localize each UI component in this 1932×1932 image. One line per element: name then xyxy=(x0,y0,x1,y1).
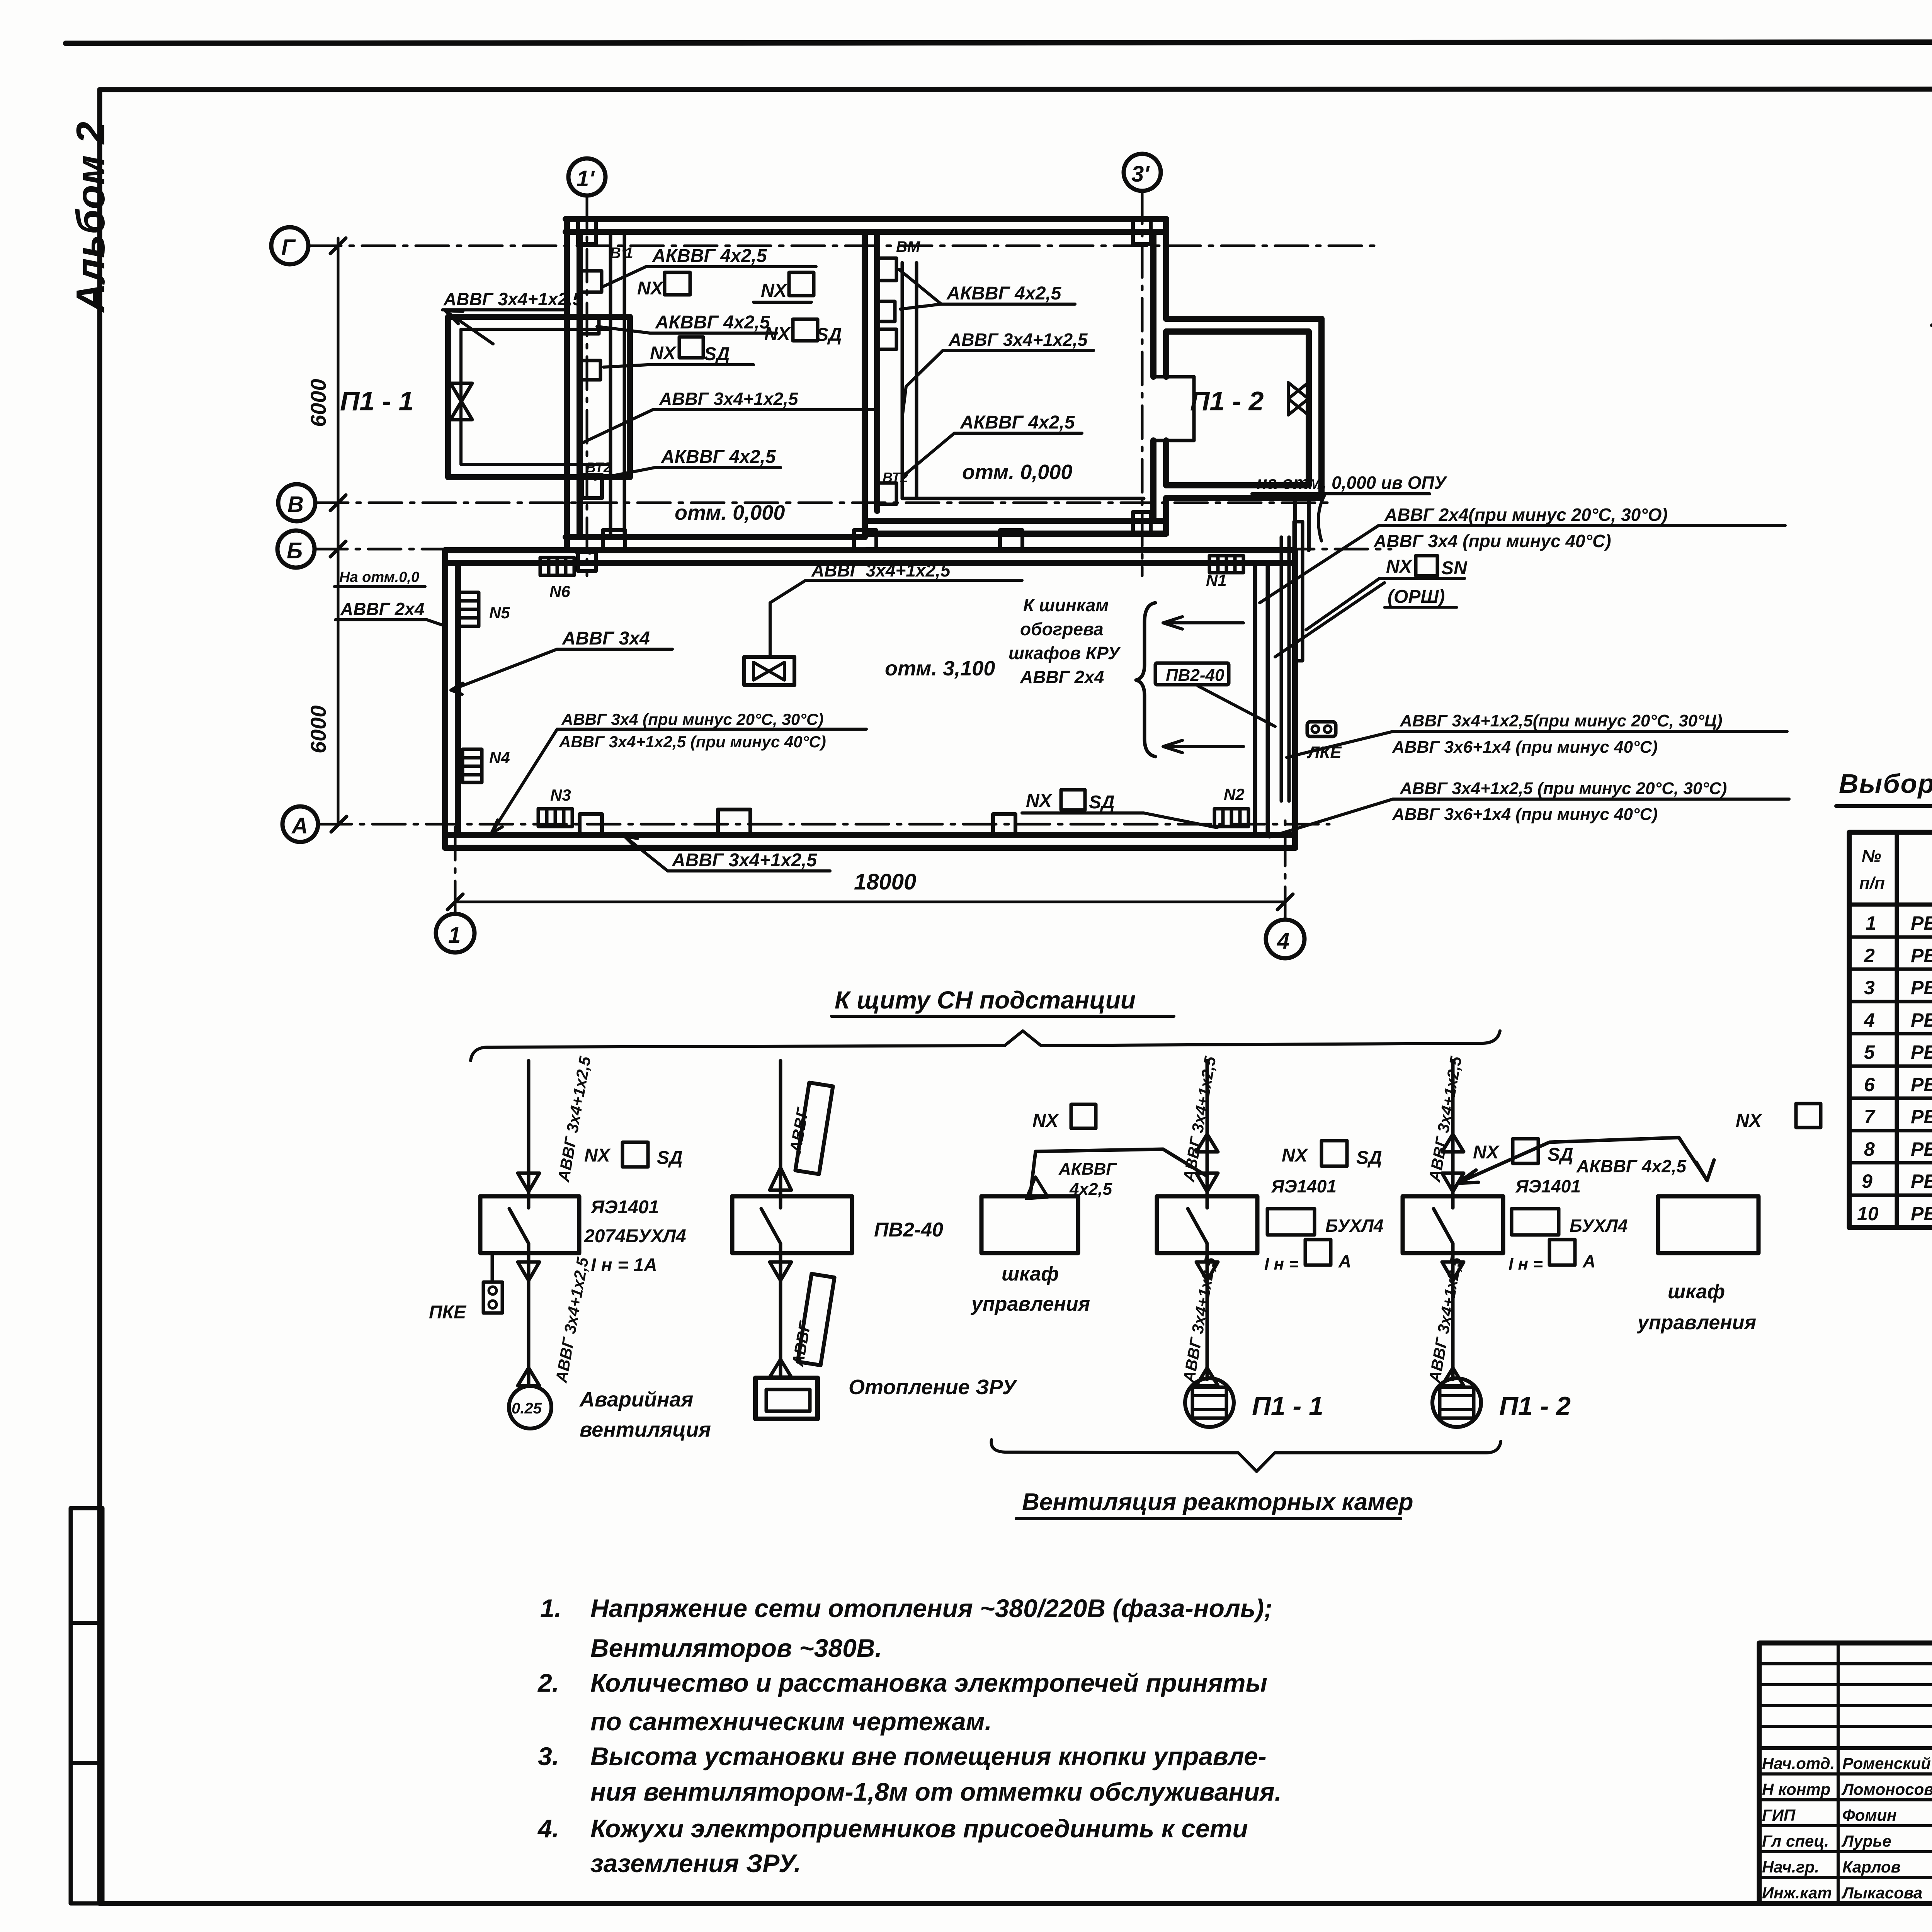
svg-text:SД: SД xyxy=(657,1148,683,1168)
svg-text:N5: N5 xyxy=(489,604,510,622)
svg-text:ЯЭ1401: ЯЭ1401 xyxy=(590,1197,659,1218)
svg-text:отм. 0,000: отм. 0,000 xyxy=(675,501,785,524)
svg-text:7: 7 xyxy=(1864,1106,1876,1128)
svg-text:на отм. 0,000 ив ОПУ: на отм. 0,000 ив ОПУ xyxy=(1257,473,1448,493)
svg-text:10: 10 xyxy=(1857,1203,1879,1225)
svg-text:N6: N6 xyxy=(549,582,570,600)
svg-text:ВМ: ВМ xyxy=(896,238,921,255)
svg-text:I н = 1А: I н = 1А xyxy=(591,1255,657,1276)
svg-text:4: 4 xyxy=(1277,929,1289,954)
svg-text:Вентиляторов ~380В.: Вентиляторов ~380В. xyxy=(590,1634,882,1662)
svg-text:К шинкам: К шинкам xyxy=(1023,595,1109,615)
svg-text:SД: SД xyxy=(816,325,842,345)
svg-text:ГИП: ГИП xyxy=(1762,1806,1796,1824)
svg-text:4: 4 xyxy=(1864,1009,1875,1031)
svg-text:NX: NX xyxy=(1026,791,1053,811)
svg-text:АВВГ 3х4+1х2,5 (при минус 20°С: АВВГ 3х4+1х2,5 (при минус 20°С, 30°С) xyxy=(1400,779,1727,798)
svg-text:Н контр: Н контр xyxy=(1762,1780,1830,1798)
svg-text:Лыкасова: Лыкасова xyxy=(1841,1884,1922,1902)
svg-text:Роменский: Роменский xyxy=(1842,1754,1931,1772)
svg-text:9: 9 xyxy=(1862,1170,1872,1192)
svg-text:П1 - 2: П1 - 2 xyxy=(1499,1391,1571,1421)
svg-text:NX: NX xyxy=(1282,1145,1309,1166)
svg-text:3: 3 xyxy=(1864,977,1875,998)
svg-text:А: А xyxy=(1338,1251,1351,1271)
svg-text:АКВВГ 4х2,5: АКВВГ 4х2,5 xyxy=(960,412,1075,433)
svg-text:АВВГ 3х4+1х2,5 (при минус 40°С: АВВГ 3х4+1х2,5 (при минус 40°С) xyxy=(559,733,826,751)
svg-text:АВВГ 3х4+1х2,5(при минус 20°С,: АВВГ 3х4+1х2,5(при минус 20°С, 30°Ц) xyxy=(1400,711,1722,730)
svg-text:1: 1 xyxy=(448,923,461,948)
svg-text:Отопление ЗРУ: Отопление ЗРУ xyxy=(849,1376,1017,1399)
svg-text:АВВГ 3х4 (при минус 40°С): АВВГ 3х4 (при минус 40°С) xyxy=(1373,531,1611,551)
svg-text:вентиляция: вентиляция xyxy=(580,1418,711,1441)
svg-text:Аварийная: Аварийная xyxy=(579,1388,693,1411)
svg-text:РБДГ-10-4000-0.18: РБДГ-10-4000-0.18 xyxy=(1911,1203,1932,1225)
svg-text:Альбом 2: Альбом 2 xyxy=(68,122,113,313)
svg-text:п/п: п/п xyxy=(1859,874,1885,893)
svg-text:N2: N2 xyxy=(1224,785,1245,803)
svg-text:SД: SД xyxy=(1548,1145,1573,1165)
svg-text:РБГ-10-2500-0.20: РБГ-10-2500-0.20 xyxy=(1911,1074,1932,1095)
svg-text:АКВВГ 4х2,5: АКВВГ 4х2,5 xyxy=(655,312,770,333)
svg-text:РБДГ-10-4000-0.10: РБДГ-10-4000-0.10 xyxy=(1911,1170,1932,1192)
svg-text:ПВ2-40: ПВ2-40 xyxy=(1166,666,1225,685)
svg-text:18000: 18000 xyxy=(854,869,916,895)
svg-text:РБГ-10-1600-0.25: РБГ-10-1600-0.25 xyxy=(1911,977,1932,998)
svg-text:АКВВГ 4х2,5: АКВВГ 4х2,5 xyxy=(652,246,767,266)
svg-text:АВВГ 3х4+1х2,5: АВВГ 3х4+1х2,5 xyxy=(948,330,1088,350)
svg-text:П1 - 1: П1 - 1 xyxy=(1252,1391,1323,1421)
svg-text:NX: NX xyxy=(1736,1111,1763,1131)
svg-text:АКВВГ 4х2,5: АКВВГ 4х2,5 xyxy=(661,447,776,467)
svg-text:ЯЭ1401: ЯЭ1401 xyxy=(1271,1176,1337,1196)
svg-text:АКВВГ 4х2,5: АКВВГ 4х2,5 xyxy=(946,283,1062,304)
svg-text:№: № xyxy=(1862,847,1881,866)
svg-text:Инж.кат: Инж.кат xyxy=(1762,1884,1832,1902)
svg-text:Лурье: Лурье xyxy=(1841,1832,1891,1850)
svg-text:АВВГ 3х6+1х4 (при минус 40°С): АВВГ 3х6+1х4 (при минус 40°С) xyxy=(1392,738,1658,757)
svg-text:отм. 0,000: отм. 0,000 xyxy=(962,461,1072,484)
svg-text:обогрева: обогрева xyxy=(1020,619,1104,639)
svg-text:Напряжение сети отопления ~380: Напряжение сети отопления ~380/220В (фаз… xyxy=(590,1594,1272,1622)
svg-text:РБГ-10-2500-0.14: РБГ-10-2500-0.14 xyxy=(1911,1041,1932,1063)
svg-text:Ломоносова: Ломоносова xyxy=(1841,1780,1932,1798)
svg-text:(ОРШ): (ОРШ) xyxy=(1388,587,1445,607)
svg-text:АКВВГ 4х2,5: АКВВГ 4х2,5 xyxy=(1576,1156,1687,1176)
svg-text:NX: NX xyxy=(650,343,677,364)
svg-text:АВВГ 3х4+1х2,5: АВВГ 3х4+1х2,5 xyxy=(672,850,817,871)
svg-text:Нач.отд.: Нач.отд. xyxy=(1762,1754,1835,1772)
svg-text:ЯЭ1401: ЯЭ1401 xyxy=(1515,1176,1581,1196)
svg-text:NX: NX xyxy=(1473,1142,1500,1163)
svg-text:отм. 3,100: отм. 3,100 xyxy=(885,657,995,680)
svg-text:1': 1' xyxy=(577,166,595,191)
svg-text:4.: 4. xyxy=(537,1814,559,1843)
svg-text:SД: SД xyxy=(1089,792,1115,813)
svg-text:АВВГ 3х4+1х2,5: АВВГ 3х4+1х2,5 xyxy=(659,389,799,409)
svg-text:К щиту СН подстанции: К щиту СН подстанции xyxy=(835,986,1136,1014)
svg-text:шкаф: шкаф xyxy=(1002,1263,1059,1285)
svg-text:3.: 3. xyxy=(538,1742,559,1770)
svg-text:5: 5 xyxy=(1864,1041,1875,1063)
svg-text:РБДГ-10-2500-0.25: РБДГ-10-2500-0.25 xyxy=(1911,1106,1932,1128)
svg-text:АВВГ 3х4 (при минус 20°С, 30°С: АВВГ 3х4 (при минус 20°С, 30°С) xyxy=(561,710,823,728)
svg-text:N1: N1 xyxy=(1206,571,1227,589)
svg-text:N4: N4 xyxy=(489,748,510,767)
svg-text:Высота установки вне помещения: Высота установки вне помещения кнопки уп… xyxy=(590,1742,1267,1770)
svg-text:Гл спец.: Гл спец. xyxy=(1762,1832,1829,1850)
svg-text:АВВГ 3х4: АВВГ 3х4 xyxy=(562,628,650,649)
svg-text:П1 - 1: П1 - 1 xyxy=(340,386,413,416)
svg-text:РБГ-10-1600-0.35: РБГ-10-1600-0.35 xyxy=(1911,1009,1932,1031)
svg-text:NX: NX xyxy=(1386,556,1413,577)
svg-text:6: 6 xyxy=(1864,1074,1875,1095)
svg-text:I н =: I н = xyxy=(1509,1255,1543,1274)
svg-text:SД: SД xyxy=(1356,1148,1382,1168)
svg-text:АВВГ 3х4+1х2,5: АВВГ 3х4+1х2,5 xyxy=(811,560,951,580)
svg-text:0.25: 0.25 xyxy=(512,1400,542,1417)
svg-text:NX: NX xyxy=(1032,1111,1060,1131)
svg-text:2074БУХЛ4: 2074БУХЛ4 xyxy=(584,1226,686,1247)
svg-text:Количество и расстановка элект: Количество и расстановка электропечей пр… xyxy=(590,1668,1267,1697)
svg-text:РБГ-10-1600-0.20: РБГ-10-1600-0.20 xyxy=(1911,945,1932,966)
svg-text:АКВВГ: АКВВГ xyxy=(1058,1160,1117,1179)
svg-text:АВВГ 2х4(при минус 20°С, 30°О): АВВГ 2х4(при минус 20°С, 30°О) xyxy=(1384,505,1668,525)
svg-text:Выбор типа ящиков управления п: Выбор типа ящиков управления приточными … xyxy=(1839,769,1932,799)
svg-text:Г: Г xyxy=(281,235,296,260)
svg-text:Б: Б xyxy=(287,538,303,563)
svg-text:РБГ-10-1600-0.14: РБГ-10-1600-0.14 xyxy=(1911,912,1932,934)
svg-text:ПКЕ: ПКЕ xyxy=(429,1302,467,1323)
svg-text:3': 3' xyxy=(1131,162,1150,187)
svg-text:8: 8 xyxy=(1864,1138,1875,1160)
svg-text:6000: 6000 xyxy=(306,379,330,427)
svg-text:заземления ЗРУ.: заземления ЗРУ. xyxy=(590,1849,801,1878)
svg-text:А: А xyxy=(291,813,308,838)
svg-text:ния вентилятором-1,8м от отмет: ния вентилятором-1,8м от отметки обслужи… xyxy=(590,1777,1282,1806)
svg-text:Вентиляция реакторных камер: Вентиляция реакторных камер xyxy=(1022,1489,1413,1515)
svg-text:АВВГ 2х4: АВВГ 2х4 xyxy=(1020,667,1104,687)
svg-text:АВВГ 3х4+1х2,5: АВВГ 3х4+1х2,5 xyxy=(443,289,583,309)
svg-text:2.: 2. xyxy=(537,1668,559,1697)
svg-text:На отм.0,0: На отм.0,0 xyxy=(339,569,419,585)
svg-text:П1 - 2: П1 - 2 xyxy=(1190,386,1264,416)
svg-text:ВТ2: ВТ2 xyxy=(586,459,611,475)
svg-text:Нач.гр.: Нач.гр. xyxy=(1762,1858,1819,1876)
svg-text:I н =: I н = xyxy=(1264,1255,1299,1274)
svg-text:А: А xyxy=(1582,1251,1595,1271)
svg-text:1: 1 xyxy=(1866,912,1876,934)
svg-text:SN: SN xyxy=(1441,558,1468,578)
svg-text:NX: NX xyxy=(761,281,788,301)
svg-text:шкафов КРУ: шкафов КРУ xyxy=(1009,643,1121,663)
svg-text:шкаф: шкаф xyxy=(1668,1281,1725,1303)
svg-text:NX: NX xyxy=(637,278,664,299)
svg-text:SД: SД xyxy=(704,344,730,364)
svg-text:В'1: В'1 xyxy=(610,245,633,262)
svg-text:Карлов: Карлов xyxy=(1842,1858,1901,1876)
svg-text:N3: N3 xyxy=(550,786,571,804)
svg-text:6000: 6000 xyxy=(306,705,330,753)
svg-text:1.: 1. xyxy=(540,1594,561,1622)
svg-text:4х2,5: 4х2,5 xyxy=(1069,1180,1112,1199)
svg-text:БУХЛ4: БУХЛ4 xyxy=(1570,1216,1628,1236)
svg-text:по сантехническим чертежам.: по сантехническим чертежам. xyxy=(590,1707,992,1736)
svg-text:Кожухи электроприемников присо: Кожухи электроприемников присоединить к … xyxy=(590,1814,1248,1843)
svg-text:ВТ2: ВТ2 xyxy=(883,469,908,485)
svg-text:РБДГ-10-2500-0,35: РБДГ-10-2500-0,35 xyxy=(1911,1138,1932,1160)
svg-text:БУХЛ4: БУХЛ4 xyxy=(1325,1216,1383,1236)
svg-text:управления: управления xyxy=(970,1293,1090,1315)
svg-text:2: 2 xyxy=(1864,945,1875,966)
svg-text:ПВ2-40: ПВ2-40 xyxy=(874,1219,943,1241)
svg-text:Фомин: Фомин xyxy=(1842,1806,1897,1824)
svg-text:NX: NX xyxy=(584,1145,611,1166)
svg-text:В: В xyxy=(287,492,304,517)
svg-text:АВВГ 3х6+1х4 (при минус 40°С): АВВГ 3х6+1х4 (при минус 40°С) xyxy=(1392,805,1658,824)
svg-text:АВВГ 2х4: АВВГ 2х4 xyxy=(340,599,424,619)
svg-text:управления: управления xyxy=(1636,1311,1756,1334)
